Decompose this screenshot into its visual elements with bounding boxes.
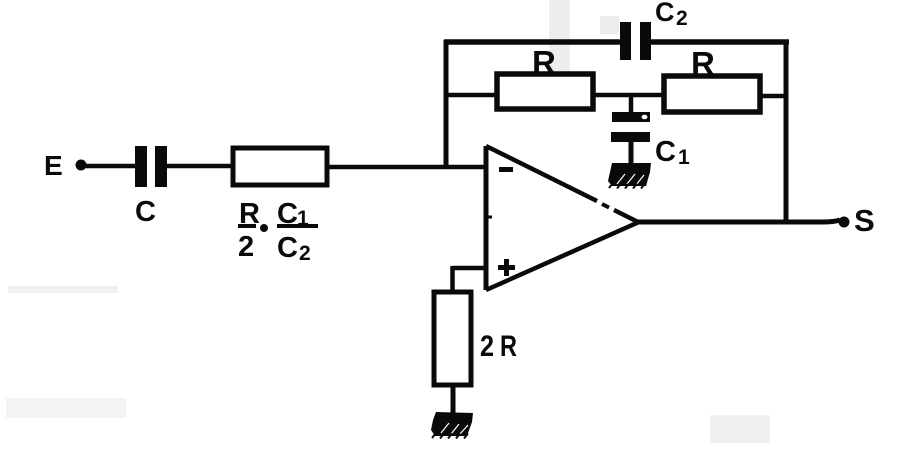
svg-text:S: S [854, 203, 875, 238]
wire E to C [84, 164, 137, 169]
ground (2R) [431, 412, 473, 439]
node S terminal dot [839, 217, 850, 228]
scan smudge near C2 [600, 16, 619, 34]
wire op-amp + input [453, 266, 487, 293]
capacitor C1 [611, 112, 650, 142]
ground (C1) [608, 163, 651, 189]
svg-text:2: 2 [676, 7, 688, 30]
svg-text:1: 1 [678, 146, 690, 169]
svg-text:2: 2 [299, 242, 311, 265]
svg-text:2: 2 [238, 231, 254, 263]
scan smudge top center [549, 0, 570, 110]
scan smudge bottom right [710, 415, 770, 443]
label 2R [480, 330, 517, 363]
label R/2 . C1/C2 [238, 198, 318, 265]
resistor 2R [434, 292, 471, 385]
svg-text:R: R [691, 45, 715, 82]
wire top feedback left of C2 [444, 39, 621, 45]
op-amp minus input mark [499, 167, 513, 172]
wire middle feedback left segment [446, 93, 499, 98]
svg-text:C: C [655, 136, 676, 168]
capacitor C2 [620, 22, 651, 60]
resistor R right [664, 76, 760, 112]
scan smudge left mid [8, 286, 118, 293]
svg-text:R: R [500, 330, 517, 363]
wire between R resistors [593, 93, 666, 98]
resistor R/2*C1/C2 [233, 148, 327, 185]
svg-text:C: C [277, 232, 298, 264]
resistor R left [497, 74, 593, 109]
wire top feedback right of C2 [650, 39, 789, 45]
label C1 [655, 136, 690, 169]
wire 2R to ground [451, 385, 456, 416]
node E terminal dot [76, 160, 87, 171]
wire feedback left vertical [444, 40, 449, 167]
svg-text:E: E [44, 150, 63, 181]
op-amp U1 [486, 146, 639, 290]
wire R right to right vertical [760, 94, 788, 99]
wire op-amp output to S [637, 220, 840, 222]
wire junction stub to C1 [629, 95, 634, 113]
wire R/2 resistor to op-amp inverting input [327, 165, 486, 170]
op-amp plus input mark [498, 259, 515, 276]
svg-text:C: C [655, 0, 675, 27]
wire feedback right vertical [784, 40, 789, 222]
svg-text:2: 2 [480, 330, 494, 363]
wire C1 to ground [629, 141, 634, 165]
svg-text:R: R [532, 44, 556, 81]
svg-text:C: C [135, 196, 156, 228]
capacitor C [135, 146, 167, 187]
label C2 [655, 0, 688, 30]
wire C to R/2 resistor [167, 164, 235, 169]
scan smudge bottom left [6, 398, 126, 418]
